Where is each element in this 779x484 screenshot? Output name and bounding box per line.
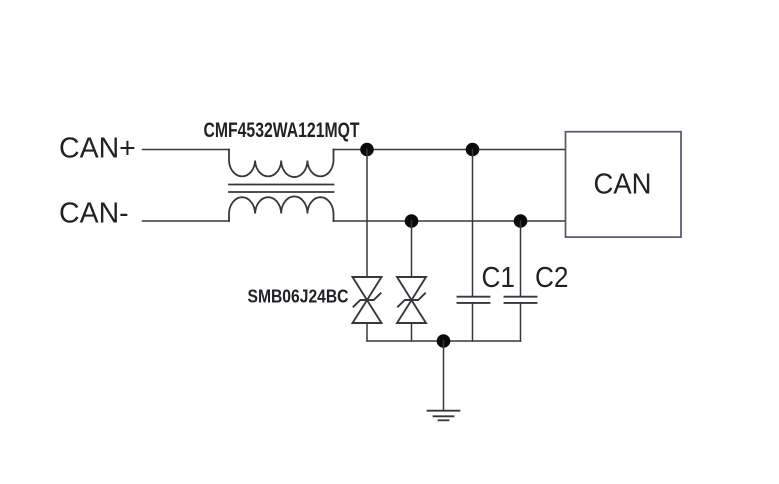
svg-text:CAN-: CAN-	[59, 197, 129, 229]
wire D1 bottom lead	[366, 323, 368, 341]
capacitor C1 plates	[458, 297, 490, 303]
wire CAN- rail to CAN box	[334, 220, 566, 222]
wire C1 bottom lead	[472, 304, 474, 342]
node junction dot CAN+ / C1	[466, 143, 480, 157]
wire D2 bottom lead	[411, 323, 413, 341]
ground symbol	[428, 411, 460, 421]
svg-text:CMF4532WA121MQT: CMF4532WA121MQT	[204, 118, 360, 142]
wire C2 top lead	[520, 221, 522, 296]
wire CAN+ input segment	[143, 149, 230, 151]
svg-text:CAN+: CAN+	[59, 133, 136, 165]
TVS diode D1	[353, 277, 382, 323]
svg-text:SMB06J24BC: SMB06J24BC	[248, 286, 349, 307]
common-mode choke L1 top winding	[229, 150, 334, 178]
common-mode choke L1 bottom winding	[229, 196, 334, 221]
svg-text:CAN: CAN	[594, 169, 652, 201]
node junction dot CAN- / C2	[514, 214, 528, 228]
wire CAN- input segment	[143, 220, 230, 222]
wire C2 bottom lead	[520, 304, 522, 342]
wire CAN+ rail to CAN box	[334, 149, 566, 151]
wire ground stem	[443, 341, 445, 410]
wire D1 top lead	[366, 150, 368, 278]
wire ground rail	[367, 340, 521, 342]
capacitor C2 plates	[505, 297, 537, 303]
TVS diode D2	[397, 277, 426, 323]
node junction dot CAN+ / D1	[360, 143, 374, 157]
wire D2 top lead	[411, 221, 413, 277]
svg-text:C2: C2	[535, 262, 569, 294]
wire C1 top lead	[472, 150, 474, 297]
CAN box U1	[566, 132, 682, 237]
node junction dot ground rail	[437, 334, 451, 348]
node junction dot CAN- / D2	[405, 214, 419, 228]
common-mode choke L1 core	[229, 185, 334, 193]
svg-text:C1: C1	[482, 262, 516, 294]
